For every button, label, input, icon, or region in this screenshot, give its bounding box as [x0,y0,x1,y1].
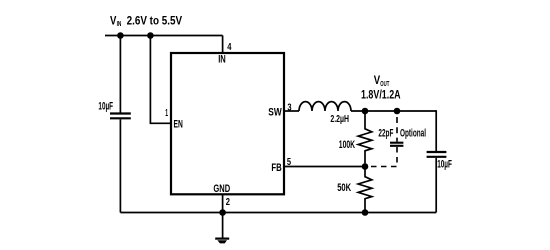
wire inductor to output corner [351,110,436,112]
svg-text:2.2µH: 2.2µH [330,114,349,125]
svg-text:FB: FB [271,162,281,174]
wire output cap bottom lead [435,158,437,213]
wire FB pin to divider [284,166,365,168]
junction dot input cap tap [117,32,124,39]
resistor 50K [358,167,372,213]
junction dot FB node [362,163,369,170]
ground [215,239,229,244]
svg-text:50K: 50K [337,182,351,194]
wire top VIN rail [105,35,223,37]
wire bottom ground rail [120,212,436,214]
inductor 2.2uH [299,102,351,111]
wire SW pin to inductor [284,110,299,112]
svg-text:SW: SW [268,106,282,118]
svg-text:IN: IN [218,54,226,66]
wire GND pin drop [222,194,224,212]
IC regulator body [171,53,284,194]
svg-text:22pF: 22pF [378,127,393,139]
svg-text:10µF: 10µF [98,101,113,113]
svg-text:GND: GND [213,183,230,195]
svg-text:EN: EN [174,119,183,131]
node VIN label [110,14,182,29]
svg-text:10µF: 10µF [437,158,452,170]
junction dot GND rail [219,209,226,216]
wire dashed 22pF top lead [396,117,398,142]
wire output cap top lead [435,110,437,151]
junction dot EN tap [147,32,154,39]
svg-text:4: 4 [227,42,232,53]
node VOUT label [361,73,401,101]
junction dot 50K bottom [362,209,369,216]
capacitor 10uF input [110,114,131,119]
svg-text:Optional: Optional [400,127,426,139]
wire dashed 22pF bottom lead to FB node [369,147,398,167]
svg-text:V: V [374,73,381,87]
capacitor 22pF optional [390,143,403,146]
svg-text:100K: 100K [339,139,355,151]
wire to ground symbol [222,213,224,239]
svg-text:V: V [110,14,117,28]
junction dot 22pF tap [394,108,401,115]
svg-text:2: 2 [226,197,231,208]
svg-text:2.6V to 5.5V: 2.6V to 5.5V [127,14,183,28]
svg-text:1: 1 [165,108,168,119]
wire IN pin drop [222,36,224,53]
capacitor 10uF output [427,152,447,157]
wire input cap top lead [119,36,121,113]
wire EN branch [150,36,170,124]
junction dot VOUT 100K tap [362,108,369,115]
svg-text:1.8V/1.2A: 1.8V/1.2A [361,88,401,102]
wire input cap bottom lead [119,119,121,212]
svg-text:IN: IN [117,19,122,28]
resistor 100K [358,111,372,167]
svg-text:OUT: OUT [380,79,389,88]
